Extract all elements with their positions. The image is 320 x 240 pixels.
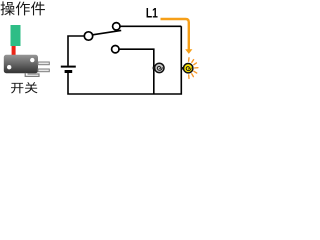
switch top throw contact xyxy=(113,23,120,30)
mounting hole top-right xyxy=(30,58,34,62)
lamp L1 rays xyxy=(189,58,198,79)
lamp L1 (lit, yellow) xyxy=(184,63,193,72)
terminal pin 1 xyxy=(38,62,49,65)
label 操作件 xyxy=(1,1,45,15)
terminal pin 3 (bottom bracket) xyxy=(25,73,39,77)
battery negative plate xyxy=(65,70,73,73)
plunger (red stem) xyxy=(12,46,16,56)
switch pole contact xyxy=(84,32,92,40)
callout arrow L1 xyxy=(161,19,189,50)
label 开关 xyxy=(11,82,38,93)
lamp L2 filament spiral xyxy=(157,66,162,70)
callout arrowhead xyxy=(185,49,192,54)
microswitch body xyxy=(4,55,38,73)
switch bottom throw contact xyxy=(112,46,119,53)
svg-text:L1: L1 xyxy=(146,5,158,21)
lamp L1 filament spiral xyxy=(186,67,191,71)
terminal pin 2 xyxy=(38,69,49,72)
mounting hole left xyxy=(7,65,11,69)
wire: battery top to switch pole xyxy=(68,36,84,66)
lamp L1 nub xyxy=(182,67,185,70)
wire: top branch to right rail xyxy=(120,25,181,27)
battery positive plate xyxy=(61,66,76,68)
operating element (green cap) xyxy=(11,25,21,46)
lamp L2 nub xyxy=(153,67,156,70)
wire: battery bottom, bottom rail, right rail up xyxy=(68,26,181,94)
lamp L2 (off, gray) xyxy=(155,63,164,72)
wire: middle branch down to bottom rail xyxy=(119,49,154,94)
switch blade xyxy=(93,30,122,34)
